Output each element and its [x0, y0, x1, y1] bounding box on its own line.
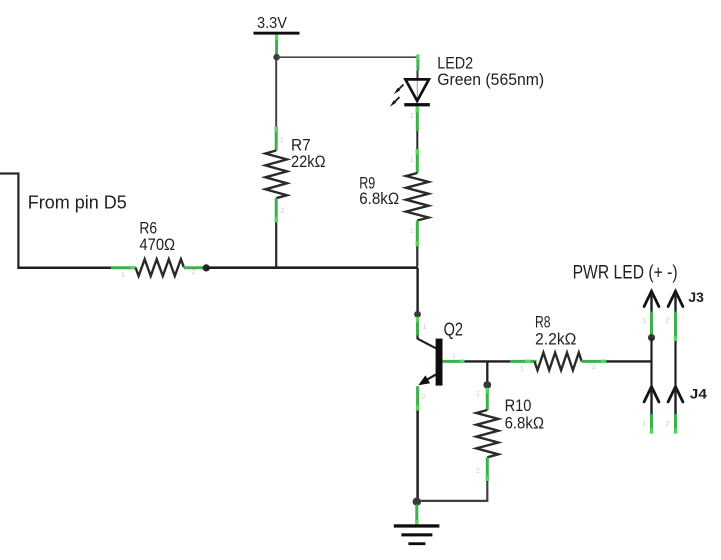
svg-text:1: 1	[452, 353, 456, 360]
svg-text:2: 2	[281, 208, 285, 215]
svg-text:From pin D5: From pin D5	[28, 191, 127, 212]
svg-text:22kΩ: 22kΩ	[291, 153, 326, 171]
svg-text:J4: J4	[690, 385, 707, 401]
svg-text:R6: R6	[139, 219, 157, 237]
svg-text:2: 2	[410, 228, 414, 235]
svg-text:1: 1	[520, 367, 524, 374]
svg-text:R8: R8	[535, 314, 551, 332]
svg-text:1: 1	[476, 391, 480, 398]
svg-text:R10: R10	[505, 396, 532, 415]
svg-text:6.8kΩ: 6.8kΩ	[359, 190, 399, 208]
svg-text:3.3V: 3.3V	[257, 15, 287, 32]
svg-text:6.8kΩ: 6.8kΩ	[505, 414, 544, 433]
svg-text:Green (565nm): Green (565nm)	[437, 70, 544, 89]
svg-text:1: 1	[643, 421, 647, 428]
svg-text:PWR LED (+ -): PWR LED (+ -)	[573, 263, 678, 284]
svg-text:R7: R7	[291, 137, 311, 155]
svg-text:2.2kΩ: 2.2kΩ	[535, 330, 576, 348]
svg-text:2: 2	[666, 421, 670, 428]
svg-text:1: 1	[280, 137, 284, 144]
svg-text:1: 1	[423, 324, 427, 331]
svg-text:2: 2	[192, 269, 196, 276]
svg-text:1: 1	[410, 157, 414, 164]
svg-text:2: 2	[422, 394, 426, 401]
svg-text:1: 1	[643, 318, 647, 325]
svg-text:2: 2	[476, 468, 480, 475]
svg-text:2: 2	[410, 113, 414, 120]
svg-text:1: 1	[121, 272, 125, 279]
svg-text:2: 2	[666, 318, 670, 325]
svg-text:470Ω: 470Ω	[139, 236, 175, 254]
svg-text:2: 2	[592, 364, 596, 371]
svg-text:J3: J3	[688, 289, 704, 305]
svg-text:Q2: Q2	[444, 320, 463, 340]
